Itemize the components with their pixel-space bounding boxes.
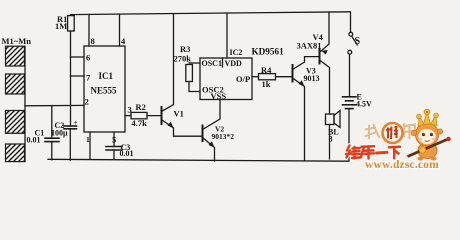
svg-text:R4: R4 [261,65,272,75]
svg-text:1k: 1k [262,79,271,89]
svg-text:4.5V: 4.5V [356,100,372,109]
svg-text:R3: R3 [180,44,190,54]
svg-text:0.01: 0.01 [120,149,134,158]
svg-text:+: + [74,119,78,127]
svg-text:9013*2: 9013*2 [212,132,235,141]
svg-text:VDD: VDD [225,59,243,68]
svg-text:0.01: 0.01 [27,136,41,145]
svg-text:IC2: IC2 [230,48,243,57]
svg-text:NE555: NE555 [91,86,118,96]
svg-text:IC1: IC1 [99,71,114,81]
svg-text:O/P: O/P [236,74,250,84]
svg-text:M1~Mn: M1~Mn [2,36,32,46]
svg-text:VSS: VSS [211,91,227,101]
svg-text:4.7k: 4.7k [132,118,148,128]
svg-text:9013: 9013 [304,74,320,83]
svg-text:OSC1: OSC1 [202,59,222,68]
svg-text:www.dzsc.com: www.dzsc.com [365,159,439,171]
svg-text:3: 3 [128,105,132,115]
svg-text:8: 8 [329,135,333,144]
svg-text:1M: 1M [55,21,67,31]
svg-text:S: S [355,36,361,47]
svg-text:5: 5 [112,135,116,145]
svg-text:R2: R2 [136,102,146,112]
svg-text:V1: V1 [174,109,184,119]
svg-text:3AX81: 3AX81 [297,41,322,51]
svg-text:2: 2 [85,97,89,107]
svg-text:8: 8 [91,36,95,46]
svg-text:270k: 270k [174,54,192,64]
svg-text:6: 6 [86,53,90,63]
svg-text:100μ: 100μ [51,129,68,138]
svg-text:KD9561: KD9561 [252,47,285,57]
svg-text:1: 1 [86,135,90,144]
